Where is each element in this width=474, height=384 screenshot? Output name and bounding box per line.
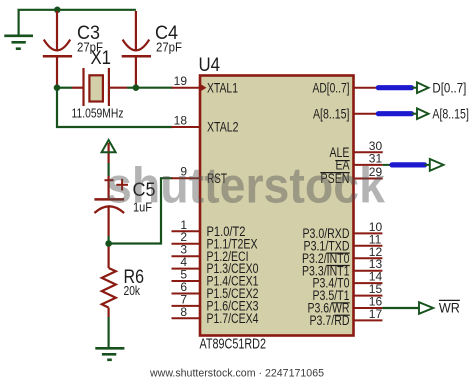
svg-text:www.shutterstock.com · 2247171: www.shutterstock.com · 2247171065 bbox=[149, 368, 324, 380]
node junction (C3 bottom / XTAL2) bbox=[54, 84, 61, 91]
capacitor C5 (polarized) bbox=[94, 176, 128, 236]
svg-text:WR: WR bbox=[439, 301, 460, 316]
svg-text:shutterstock: shutterstock bbox=[106, 157, 385, 213]
pin 10 P3.0/RXD bbox=[303, 220, 383, 241]
svg-text:8: 8 bbox=[180, 305, 187, 319]
svg-text:X1: X1 bbox=[91, 48, 112, 69]
pin 5 P1.4/CEX1 bbox=[172, 268, 259, 289]
pin 2 P1.1/T2EX bbox=[172, 230, 258, 251]
svg-text:U4: U4 bbox=[199, 55, 221, 76]
pin 11 P3.1/TXD bbox=[304, 232, 383, 253]
pin 9 RST bbox=[172, 165, 228, 186]
pin 16 P3.6/WR (overline WR) bbox=[308, 295, 383, 316]
svg-text:27pF: 27pF bbox=[156, 41, 182, 55]
pin 14 P3.4/T0 bbox=[313, 270, 383, 291]
pin 12 P3.2/INT0 (overline INT0) bbox=[302, 245, 382, 266]
capacitor C3 bbox=[43, 11, 72, 88]
node junction (C4 bottom / XTAL1) bbox=[133, 84, 140, 91]
node junction top (C3 top) bbox=[54, 7, 61, 14]
svg-text:XTAL2: XTAL2 bbox=[207, 120, 239, 135]
pin 1 P1.0/T2 bbox=[172, 218, 246, 239]
pin 29 PSEN (overline) bbox=[320, 165, 382, 186]
node junction (RST / C5 / R6) bbox=[105, 240, 112, 247]
svg-text:18: 18 bbox=[174, 114, 188, 128]
svg-text:P1.7/CEX4: P1.7/CEX4 bbox=[207, 311, 259, 326]
power terminal VCC arrow bbox=[102, 140, 116, 176]
ground GND1 top-left bbox=[4, 36, 33, 49]
pin 3 P1.2/ECI bbox=[172, 243, 249, 264]
pin AD[0..7] bus pin bbox=[313, 80, 379, 95]
crystal X1 bbox=[72, 68, 127, 106]
pin 8 P1.7/CEX4 bbox=[172, 305, 259, 326]
pin 4 P1.3/CEX0 bbox=[172, 255, 259, 276]
capacitor C4 bbox=[122, 11, 151, 88]
wire to XTAL2 pin 18 bbox=[57, 88, 173, 127]
svg-text:A[8..15]: A[8..15] bbox=[432, 106, 469, 121]
ground GND2 bottom bbox=[95, 348, 124, 360]
svg-text:D[0..7]: D[0..7] bbox=[432, 80, 466, 95]
svg-text:A[8..15]: A[8..15] bbox=[313, 106, 350, 121]
pin 7 P1.6/CEX3 bbox=[172, 292, 259, 313]
svg-text:AD[0..7]: AD[0..7] bbox=[313, 80, 350, 95]
pin A[8..15] bus pin bbox=[313, 106, 378, 121]
wire node to RST pin 9 bbox=[109, 178, 173, 243]
pin 15 P3.5/T1 bbox=[313, 282, 383, 303]
wire crystal right to node bbox=[127, 87, 136, 89]
wire junction to crystal left bbox=[57, 87, 72, 89]
bus AD to terminal bbox=[378, 80, 466, 95]
wire R6 to ground bbox=[107, 317, 109, 348]
pin 6 P1.5/CEX2 bbox=[172, 280, 259, 301]
pin 13 P3.3/INT1 (overline INT1) bbox=[302, 257, 382, 278]
svg-text:AT89C51RD2: AT89C51RD2 bbox=[200, 337, 267, 353]
pin 18 XTAL2 bbox=[172, 114, 239, 135]
pin 30 ALE bbox=[330, 139, 383, 160]
wire to XTAL1 pin 19 bbox=[136, 87, 173, 89]
svg-text:17: 17 bbox=[369, 307, 383, 321]
wire C5 bottom to node bbox=[107, 236, 109, 244]
op U4 chip body AT89C51RD2 bbox=[200, 76, 354, 336]
wire ground to C3/C4 top rail bbox=[19, 10, 136, 36]
wire P3.6/WR to terminal WR bbox=[382, 300, 460, 315]
pin 17 P3.7/RD (overline RD) bbox=[310, 307, 383, 328]
svg-text:20k: 20k bbox=[124, 284, 141, 298]
svg-text:11.059MHz: 11.059MHz bbox=[72, 106, 124, 121]
bus A to terminal bbox=[378, 106, 469, 121]
svg-text:XTAL1: XTAL1 bbox=[207, 80, 238, 95]
svg-text:19: 19 bbox=[174, 74, 188, 88]
resistor R6 bbox=[102, 244, 116, 318]
pin 31 EA (overline) bbox=[335, 151, 382, 172]
pin 19 XTAL1 bbox=[172, 74, 239, 95]
wire EA to bus terminal bbox=[383, 159, 444, 171]
